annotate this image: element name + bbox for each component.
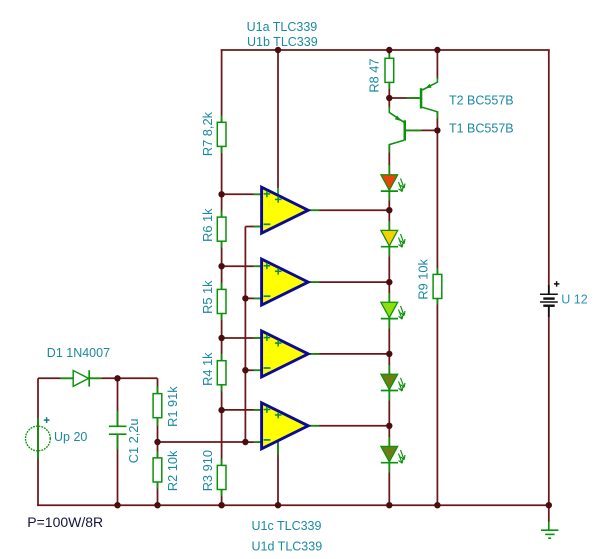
svg-text:P=100W/8R: P=100W/8R xyxy=(27,514,103,530)
svg-text:U1d TLC339: U1d TLC339 xyxy=(252,539,323,553)
svg-text:U1c TLC339: U1c TLC339 xyxy=(252,519,322,533)
svg-text:D1 1N4007: D1 1N4007 xyxy=(47,346,110,360)
svg-text:R7 8,2k: R7 8,2k xyxy=(200,111,215,156)
svg-text:U1a TLC339: U1a TLC339 xyxy=(247,20,318,34)
svg-text:C1 2,2u: C1 2,2u xyxy=(126,418,141,463)
svg-text:R4 1k: R4 1k xyxy=(200,352,215,386)
svg-text:Up 20: Up 20 xyxy=(54,430,87,444)
svg-text:R9 10k: R9 10k xyxy=(415,258,430,299)
svg-text:T2 BC557B: T2 BC557B xyxy=(449,93,514,107)
svg-text:R1 91k: R1 91k xyxy=(165,386,180,427)
svg-text:R8 47: R8 47 xyxy=(367,58,382,92)
svg-text:U 12: U 12 xyxy=(561,293,587,307)
svg-text:T1 BC557B: T1 BC557B xyxy=(449,122,514,136)
svg-text:R3 910: R3 910 xyxy=(200,450,215,491)
svg-text:R5 1k: R5 1k xyxy=(200,280,215,314)
svg-text:U1b TLC339: U1b TLC339 xyxy=(247,35,318,49)
svg-text:R6 1k: R6 1k xyxy=(200,208,215,242)
svg-text:R2 10k: R2 10k xyxy=(165,450,180,491)
